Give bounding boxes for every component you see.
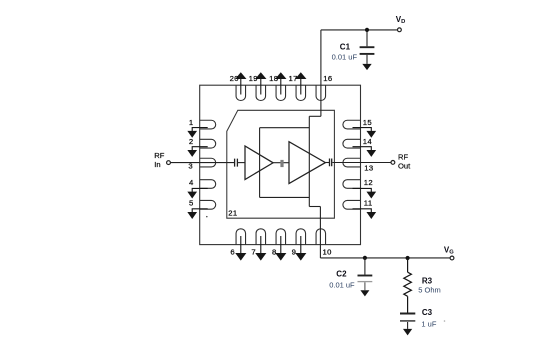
svg-text:12: 12 xyxy=(364,178,373,187)
svg-text:In: In xyxy=(154,160,160,169)
svg-text:C1: C1 xyxy=(340,42,351,51)
svg-text:6: 6 xyxy=(230,247,235,256)
svg-text:RF: RF xyxy=(154,151,164,160)
svg-text:4: 4 xyxy=(189,178,194,187)
svg-text:10: 10 xyxy=(323,247,332,256)
svg-text:16: 16 xyxy=(323,74,332,83)
svg-text:14: 14 xyxy=(363,137,373,146)
svg-text:C2: C2 xyxy=(336,269,347,278)
svg-text:3: 3 xyxy=(188,162,193,171)
svg-text:1: 1 xyxy=(189,118,194,127)
svg-text:15: 15 xyxy=(363,118,372,127)
svg-text:7: 7 xyxy=(251,247,256,256)
svg-text:8: 8 xyxy=(272,247,277,256)
svg-text:13: 13 xyxy=(364,163,373,172)
svg-text:21: 21 xyxy=(228,209,237,218)
svg-text:1 uF: 1 uF xyxy=(421,320,436,329)
svg-text:Out: Out xyxy=(398,161,411,170)
svg-text:19: 19 xyxy=(249,74,258,83)
svg-text:RF: RF xyxy=(398,153,408,162)
svg-text:C3: C3 xyxy=(422,308,433,317)
svg-text:18: 18 xyxy=(269,74,278,83)
svg-text:20: 20 xyxy=(230,74,239,83)
svg-text:0.01 uF: 0.01 uF xyxy=(329,281,355,290)
svg-text:VD: VD xyxy=(396,15,406,25)
svg-text:11: 11 xyxy=(364,199,373,208)
svg-text:17: 17 xyxy=(289,74,298,83)
svg-text:5 Ohm: 5 Ohm xyxy=(418,285,441,294)
svg-text:5: 5 xyxy=(189,199,194,208)
svg-text:0.01 uF: 0.01 uF xyxy=(332,53,358,62)
svg-text:2: 2 xyxy=(189,137,194,146)
svg-text:R3: R3 xyxy=(422,277,433,286)
svg-text:9: 9 xyxy=(292,247,297,256)
svg-text:VG: VG xyxy=(444,246,454,256)
